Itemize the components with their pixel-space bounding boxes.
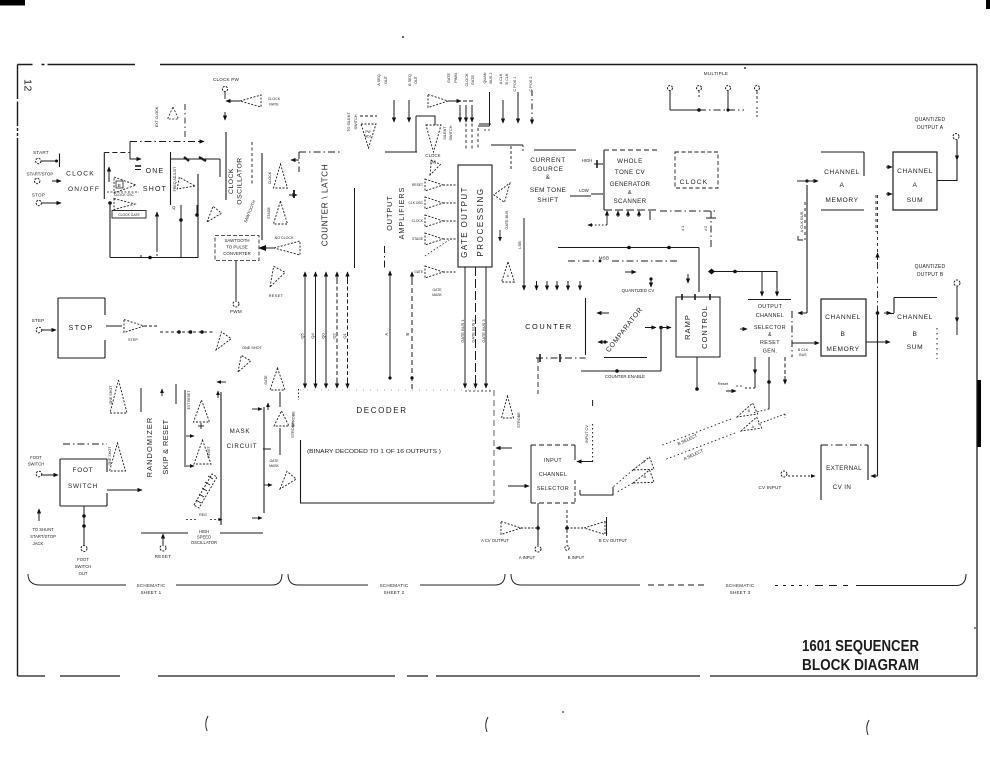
svg-text:GATE BUS 2: GATE BUS 2 bbox=[471, 319, 476, 343]
svg-text:LSB: LSB bbox=[517, 241, 522, 249]
svg-text:GATE: GATE bbox=[433, 288, 443, 292]
svg-text:OUTPUT: OUTPUT bbox=[758, 304, 783, 310]
junction marks x295 bbox=[293, 190, 295, 198]
svg-text:A CLK BUS: A CLK BUS bbox=[799, 211, 804, 232]
wire v699 bbox=[698, 248, 700, 293]
jack A INPUT bbox=[519, 546, 541, 560]
net EXT CLOCK rotated bbox=[155, 106, 159, 127]
svg-text:FOOT: FOOT bbox=[30, 455, 42, 460]
net B SELECT bbox=[677, 433, 699, 447]
wire gate bus dashes below bbox=[465, 390, 492, 392]
svg-text:Q2: Q2 bbox=[332, 333, 337, 339]
svg-text:FOOT: FOOT bbox=[77, 557, 89, 562]
wire trigger up-arrow bbox=[156, 212, 158, 257]
svg-text:CLOCK: CLOCK bbox=[412, 219, 424, 223]
wire mask v280 bbox=[279, 392, 281, 455]
wire oneshot top corner bbox=[219, 159, 221, 177]
net label B CLK x508 bbox=[505, 73, 509, 84]
svg-text:B CLK: B CLK bbox=[798, 348, 809, 352]
svg-text:QUANTIZED CV: QUANTIZED CV bbox=[622, 288, 655, 293]
block RAMP CONTROL bbox=[676, 294, 720, 357]
svg-text:STOP: STOP bbox=[32, 193, 45, 198]
brace sheet1 bbox=[28, 574, 282, 595]
svg-text:MASK: MASK bbox=[432, 293, 442, 297]
wire arrow mask in1 bbox=[252, 408, 262, 410]
wire select dotted low2 bbox=[617, 483, 633, 492]
op-amp GATE BUS out bbox=[494, 183, 510, 229]
label GATE MASK right bbox=[269, 459, 279, 468]
wire counter enable bbox=[581, 369, 661, 373]
wire stub a-seq bbox=[393, 100, 395, 122]
svg-text:GATE OUTPUT: GATE OUTPUT bbox=[460, 186, 469, 258]
wire sum A in1 bbox=[886, 166, 892, 168]
wire stub gate2 bbox=[465, 105, 467, 122]
wire counter output Q0 bbox=[321, 272, 327, 388]
svg-text:STAGE: STAGE bbox=[412, 237, 424, 241]
svg-text:MEMORY: MEMORY bbox=[825, 197, 858, 204]
wire gate group dash bbox=[466, 107, 478, 150]
wire oneshot top bbox=[171, 157, 220, 161]
svg-text:12: 12 bbox=[22, 79, 34, 92]
op-amp one shot u2 bbox=[108, 443, 126, 471]
block EXTERNAL CV IN bbox=[821, 445, 868, 500]
svg-text:A CV OUTPUT: A CV OUTPUT bbox=[481, 538, 509, 543]
svg-text:B: B bbox=[118, 183, 122, 188]
svg-text:SOURCE: SOURCE bbox=[533, 166, 564, 173]
svg-text:PW: PW bbox=[365, 130, 371, 134]
page number 12 bbox=[22, 79, 34, 92]
wire counter output Q1 bbox=[342, 272, 348, 388]
net label GATE x450 bbox=[447, 73, 451, 84]
wire bottom bus left bbox=[110, 256, 198, 260]
wire clock bottom dashdot bbox=[660, 210, 718, 212]
svg-text:SELECTOR: SELECTOR bbox=[754, 325, 786, 331]
svg-text:ONE: ONE bbox=[146, 168, 165, 175]
svg-text:WHOLE: WHOLE bbox=[617, 158, 643, 165]
svg-text:INPUT: INPUT bbox=[544, 458, 562, 464]
block SAWTOOTH TO PULSE CONVERTER bbox=[215, 236, 259, 261]
wire tick up rand bbox=[161, 389, 163, 396]
block CLOCK bbox=[675, 152, 718, 188]
wire input cv bbox=[577, 400, 593, 462]
clock oscillator rotated label bbox=[228, 157, 244, 204]
svg-text:RESET: RESET bbox=[269, 293, 284, 298]
svg-text:TONE CV: TONE CV bbox=[615, 169, 646, 176]
svg-text:Q: Q bbox=[172, 205, 176, 210]
clock gate label box bbox=[112, 211, 146, 219]
wire h385 bbox=[385, 151, 417, 153]
jack CV INPUT bbox=[758, 471, 815, 490]
wire aclk into ocs bbox=[798, 312, 807, 314]
svg-text:SCHEMATIC: SCHEMATIC bbox=[726, 583, 755, 588]
wire ocs top arrow1 bbox=[761, 272, 763, 296]
wire mask right edge bbox=[263, 407, 265, 513]
svg-text:CHANNEL: CHANNEL bbox=[756, 313, 785, 319]
wire stub qbus bbox=[502, 100, 504, 123]
net label PWM x457 bbox=[454, 73, 458, 82]
svg-text:CV INPUT: CV INPUT bbox=[758, 485, 781, 490]
wire decoder right arrow bbox=[496, 447, 512, 449]
wire v661 bbox=[660, 328, 662, 372]
label MSB bbox=[568, 256, 680, 263]
net label C POS 1 x516 bbox=[513, 77, 517, 92]
op-amp gate in CLOCK bbox=[412, 215, 456, 227]
svg-text:AMPLIFIERS: AMPLIFIERS bbox=[397, 187, 406, 240]
jack QUANTIZED OUTPUT A bbox=[915, 117, 959, 140]
wire dash v805 bbox=[798, 202, 805, 240]
svg-text:Q0: Q0 bbox=[321, 333, 326, 339]
svg-text:TO SHUNT: TO SHUNT bbox=[32, 527, 54, 532]
freq adjust rotated bbox=[173, 166, 177, 192]
wire select dotted mid2 bbox=[664, 433, 735, 460]
jack FOOT SWITCH OUT bbox=[75, 546, 92, 577]
net label GATE x474 bbox=[471, 75, 475, 86]
svg-text:REG: REG bbox=[199, 513, 207, 517]
op-amp NO CLOCK bbox=[259, 236, 300, 255]
wire rand tick2 bbox=[175, 384, 177, 404]
wire qbus long bbox=[478, 92, 490, 126]
wire rand arrow2 bbox=[186, 465, 194, 467]
net INPUT CV bbox=[585, 425, 589, 443]
svg-text:SHEET 3: SHEET 3 bbox=[730, 590, 751, 595]
wire dashdot counterlatch top bbox=[299, 152, 342, 172]
svg-text:B INPUT: B INPUT bbox=[568, 555, 585, 560]
svg-text:EXT RESET: EXT RESET bbox=[187, 391, 191, 410]
label DECODER bbox=[356, 406, 407, 415]
svg-text:FREQ ADJUST: FREQ ADJUST bbox=[173, 166, 177, 192]
wire clock pw stub bbox=[224, 112, 226, 120]
wire rand tick1 bbox=[140, 388, 142, 412]
label CLOCK (N) bbox=[425, 153, 440, 165]
scan speck 1 bbox=[402, 36, 404, 38]
wire dash v876 bbox=[875, 195, 877, 232]
svg-text:NO CLOCK: NO CLOCK bbox=[275, 236, 294, 240]
block INPUT CHANNEL SELECTOR bbox=[531, 445, 575, 503]
op-amp clock gate amp bbox=[114, 199, 135, 210]
op-amp STEP bbox=[106, 320, 158, 343]
wire mask left edge bbox=[220, 392, 222, 525]
svg-text:GATE BUS 3: GATE BUS 3 bbox=[481, 319, 486, 343]
svg-text:SILENT: SILENT bbox=[443, 126, 447, 140]
wire v416 bbox=[415, 116, 417, 152]
wire multiple bus bbox=[670, 91, 757, 118]
net label A SEQ x380 bbox=[377, 74, 381, 85]
wire counter in 2 bbox=[546, 281, 548, 290]
svg-text:A: A bbox=[384, 332, 389, 335]
svg-text:INPUT CV: INPUT CV bbox=[585, 425, 589, 443]
wire foot down bbox=[82, 506, 86, 545]
jack B INPUT bbox=[565, 546, 585, 560]
clock on/off box bbox=[104, 153, 130, 200]
net label OUT x387 bbox=[384, 75, 388, 84]
svg-text:HIGH: HIGH bbox=[199, 529, 209, 534]
svg-text:CLOCK: CLOCK bbox=[680, 179, 709, 186]
svg-text:A INPUT: A INPUT bbox=[519, 555, 536, 560]
wire stub cpos2 bbox=[531, 90, 533, 124]
svg-text:SUM: SUM bbox=[907, 197, 923, 204]
op-amp gate in STAGE bbox=[412, 233, 456, 245]
wire A to decoder bbox=[384, 271, 392, 380]
label TO SHUNT bbox=[30, 527, 56, 546]
wire comparator base bbox=[604, 357, 647, 359]
op-amp STAGE bbox=[267, 201, 288, 224]
svg-text:A: A bbox=[643, 460, 646, 464]
wire corner into one shot bbox=[130, 142, 141, 160]
svg-text:HIGH: HIGH bbox=[582, 158, 592, 163]
label Reset small bbox=[718, 381, 744, 386]
frame border bbox=[16, 62, 978, 679]
net A SELECT bbox=[683, 448, 704, 462]
svg-text:GEN.: GEN. bbox=[763, 349, 778, 355]
wire GATE BUS 2 bbox=[471, 267, 476, 388]
wire B to decoder bbox=[405, 272, 414, 390]
jack QUANTIZED OUTPUT B bbox=[915, 264, 960, 286]
svg-text:CLOCK: CLOCK bbox=[268, 171, 272, 184]
tick marks one shot bbox=[135, 166, 141, 170]
svg-text:CLOCK: CLOCK bbox=[268, 97, 281, 101]
svg-text:COUNTER ENABLE: COUNTER ENABLE bbox=[605, 374, 645, 379]
svg-text:ONE SHOT: ONE SHOT bbox=[108, 446, 112, 466]
wire one-shot right edge bbox=[197, 174, 199, 258]
op-amp clock n bbox=[430, 160, 440, 175]
svg-text:BLOCK DIAGRAM: BLOCK DIAGRAM bbox=[802, 657, 919, 674]
op-amp SILENT SWITCH bbox=[426, 125, 453, 152]
brace sheet2 bbox=[288, 574, 505, 595]
wire tick up mask1 bbox=[217, 391, 219, 398]
tick into counter latch bbox=[289, 194, 297, 196]
svg-text:COUNTER \ LATCH: COUNTER \ LATCH bbox=[321, 164, 330, 246]
svg-text:CHANNEL: CHANNEL bbox=[825, 314, 861, 321]
jack multiple 3 bbox=[726, 86, 731, 91]
op-amp A select upper bbox=[741, 417, 762, 431]
op-amp CLOCK bbox=[268, 164, 288, 188]
label LOW bbox=[570, 188, 603, 196]
block CHANNEL B SUM bbox=[889, 298, 937, 360]
wire hso line bbox=[141, 532, 263, 534]
svg-text:CURRENT: CURRENT bbox=[530, 157, 565, 164]
op-amp clock osc label bbox=[107, 192, 139, 197]
wire v711 dashdot bbox=[706, 211, 716, 247]
wire corner silent bbox=[416, 116, 435, 125]
block ONE SHOT label bbox=[143, 168, 167, 193]
svg-text:RAMP: RAMP bbox=[683, 314, 692, 340]
op-amp gate diag bbox=[280, 471, 296, 489]
svg-text:SELECTOR: SELECTOR bbox=[537, 486, 569, 492]
svg-text:GATE: GATE bbox=[414, 270, 424, 274]
svg-text:Q5: Q5 bbox=[300, 333, 305, 339]
wire counterlatch bottom right bbox=[354, 188, 356, 268]
wire stub gate3 bbox=[471, 105, 473, 122]
svg-text:RESET: RESET bbox=[412, 183, 423, 187]
label MULTIPLE bbox=[704, 71, 729, 76]
wire dashdot x384 bbox=[384, 246, 386, 269]
wire top dashdot bbox=[130, 141, 204, 143]
svg-text:B CV OUTPUT: B CV OUTPUT bbox=[599, 538, 628, 543]
jack multiple 4 bbox=[755, 86, 760, 91]
scan speck 3 bbox=[562, 711, 564, 713]
svg-text:STROBE: STROBE bbox=[292, 411, 296, 427]
wire tick up mask2 bbox=[267, 403, 269, 410]
scan speck 2 bbox=[744, 67, 746, 69]
svg-text:CLOCK PW: CLOCK PW bbox=[213, 77, 240, 82]
wire dotted left arrow bbox=[588, 217, 607, 225]
svg-text:CLOCK: CLOCK bbox=[425, 153, 440, 158]
wire GATE BUS 3 bbox=[481, 267, 486, 388]
net STROBE decoder bbox=[291, 422, 295, 438]
wire cmp arrow1 bbox=[597, 312, 609, 314]
jack START/STOP bbox=[27, 172, 61, 184]
op-amp RESET diag bbox=[269, 266, 286, 298]
svg-text:FOOT: FOOT bbox=[73, 467, 94, 474]
wire sum A in2 bbox=[886, 193, 892, 195]
wire counter output Q5 bbox=[300, 272, 306, 388]
svg-text:RESET: RESET bbox=[155, 554, 172, 559]
net label CLOCK x468 bbox=[465, 73, 469, 87]
jack FOOT SWITCH bbox=[28, 455, 58, 477]
svg-text:OSCILLATOR: OSCILLATOR bbox=[191, 540, 217, 545]
wire ocs left arrow bbox=[740, 328, 747, 330]
op-amp ext reset bbox=[187, 391, 210, 422]
wire scanner out5 bbox=[649, 211, 651, 220]
wire b select dotted bbox=[752, 409, 769, 413]
wire counter in 5 bbox=[579, 281, 581, 290]
node comparator out bbox=[645, 326, 671, 330]
svg-text:SHEET 2: SHEET 2 bbox=[384, 590, 405, 595]
op-amp one shot d1 bbox=[216, 332, 263, 350]
wire sum A out bbox=[937, 140, 957, 181]
wire ics left arrow bbox=[508, 485, 529, 487]
svg-text:MULTIPLE: MULTIPLE bbox=[704, 71, 729, 76]
wire arrow down x500 bbox=[499, 230, 501, 241]
wire arrow mask in2 bbox=[252, 517, 262, 519]
svg-text:GATE: GATE bbox=[447, 73, 451, 84]
svg-text:QUANTIZED: QUANTIZED bbox=[915, 264, 946, 270]
wire cmp arrow2 bbox=[598, 340, 608, 343]
svg-text:START/STOP: START/STOP bbox=[27, 172, 54, 177]
net label OUT x417 bbox=[414, 75, 418, 84]
op-amp ext clock bbox=[168, 107, 179, 119]
net label B SEQ x411 bbox=[408, 74, 412, 86]
svg-text:CLK OSC: CLK OSC bbox=[409, 201, 424, 205]
svg-text:#1: #1 bbox=[680, 225, 685, 231]
sawtooth rotated label bbox=[243, 199, 257, 223]
svg-text:CIRCUIT: CIRCUIT bbox=[227, 443, 258, 450]
svg-text:#2: #2 bbox=[703, 225, 708, 231]
wire dash foot top bbox=[63, 443, 107, 445]
op-amp STROBE bbox=[502, 396, 522, 428]
wire arrow left small bbox=[291, 159, 299, 161]
wire counter right edge bbox=[585, 298, 587, 355]
wire ocs output bclk bbox=[792, 343, 819, 357]
svg-text:TO PULSE: TO PULSE bbox=[226, 245, 248, 250]
wire dash v538 bbox=[537, 358, 539, 394]
node clock gate out bbox=[108, 201, 112, 205]
svg-text:CLOCK GATE: CLOCK GATE bbox=[118, 213, 140, 217]
wire scanner out3 bbox=[627, 211, 629, 217]
svg-text:C POS 1: C POS 1 bbox=[513, 77, 517, 92]
jack STOP bbox=[32, 193, 61, 206]
op-amp one shot u1 bbox=[109, 380, 127, 413]
op-amp B select lower bbox=[633, 470, 654, 483]
jack multiple 1 bbox=[668, 86, 673, 91]
svg-text:SWITCH: SWITCH bbox=[75, 564, 92, 569]
svg-text:SWITCH: SWITCH bbox=[28, 462, 45, 467]
op-amp gate in RESET bbox=[412, 179, 456, 191]
svg-text:SWITCH: SWITCH bbox=[354, 114, 358, 129]
wire select dotted low1 bbox=[613, 470, 633, 487]
svg-text:Reset: Reset bbox=[718, 381, 729, 386]
block COMPARATOR rotated bbox=[605, 306, 644, 354]
svg-text:START: START bbox=[33, 150, 49, 155]
svg-text:BUS 2: BUS 2 bbox=[489, 73, 493, 84]
svg-text:B: B bbox=[841, 331, 846, 338]
label GATE MASK lower bbox=[432, 288, 442, 297]
op-amp B CV OUTPUT bbox=[567, 517, 628, 543]
wire arrow into rand1 bbox=[217, 381, 226, 383]
block RANDOMIZER rotated bbox=[145, 417, 170, 478]
svg-text:JACK: JACK bbox=[33, 541, 44, 546]
label Q bbox=[172, 205, 176, 210]
node cross under ext reset bbox=[198, 423, 204, 429]
svg-text:CLOCK: CLOCK bbox=[465, 73, 469, 87]
svg-text:GATE: GATE bbox=[270, 459, 280, 463]
svg-text:(BINARY DECODED TO 1 OF 1: (BINARY DECODED TO 1 OF 16 OUTPUTS ) bbox=[307, 449, 441, 455]
svg-text:CONVERTER: CONVERTER bbox=[223, 251, 251, 256]
op-amp clock rate bbox=[226, 95, 281, 107]
svg-text:B CLK: B CLK bbox=[505, 73, 509, 84]
wire stub cpos1 bbox=[517, 92, 519, 123]
svg-text:QUANTIZED: QUANTIZED bbox=[915, 117, 946, 123]
label binary decoded bbox=[307, 449, 441, 455]
jack RESET bottom bbox=[155, 534, 172, 559]
wire shunt arrow bbox=[38, 509, 40, 521]
wire scanner out2 bbox=[617, 211, 619, 217]
block OUTPUT AMPLIFIERS rotated bbox=[385, 187, 406, 240]
svg-text:SKIP & RESET: SKIP & RESET bbox=[161, 419, 170, 474]
wire a select dotted upper bbox=[758, 414, 785, 424]
label QUANTIZED CV bbox=[622, 288, 655, 293]
wire ext cv vertical bbox=[876, 195, 880, 476]
wire select corner bbox=[580, 487, 613, 495]
svg-text:SEM TONE: SEM TONE bbox=[530, 187, 566, 194]
scan mark top-left bbox=[0, 0, 25, 6]
block CHANNEL B MEMORY bbox=[821, 299, 866, 356]
svg-text:EXTERNAL: EXTERNAL bbox=[826, 465, 862, 472]
svg-text:STROBE: STROBE bbox=[517, 412, 521, 428]
svg-text:A: A bbox=[913, 182, 918, 189]
svg-text:&: & bbox=[546, 175, 551, 181]
svg-text:CHANNEL: CHANNEL bbox=[897, 168, 933, 175]
wire rand tick3 bbox=[140, 255, 142, 258]
wire ocs top arrow2 bbox=[776, 288, 778, 296]
wire ocs below3 bbox=[784, 357, 786, 384]
wire h271 bbox=[708, 269, 777, 289]
net label A CLK x502 bbox=[499, 73, 503, 84]
svg-text:MASK: MASK bbox=[269, 464, 279, 468]
op-amp PW ADJ bbox=[361, 124, 376, 148]
svg-text:CLOCK: CLOCK bbox=[66, 171, 95, 178]
svg-text:SHOT: SHOT bbox=[143, 186, 167, 193]
wire quantized cv arrow bbox=[625, 272, 653, 287]
op-amp B select upper bbox=[737, 403, 758, 417]
wire ramp bottom bbox=[695, 357, 699, 391]
transistor random bar bbox=[194, 474, 217, 508]
wire ics to jacks bbox=[536, 503, 569, 545]
svg-text:ONE SHOT: ONE SHOT bbox=[242, 346, 263, 350]
label #2 bbox=[703, 225, 708, 231]
op-amp A small bbox=[502, 262, 515, 282]
wire h491-523 bbox=[491, 145, 523, 152]
